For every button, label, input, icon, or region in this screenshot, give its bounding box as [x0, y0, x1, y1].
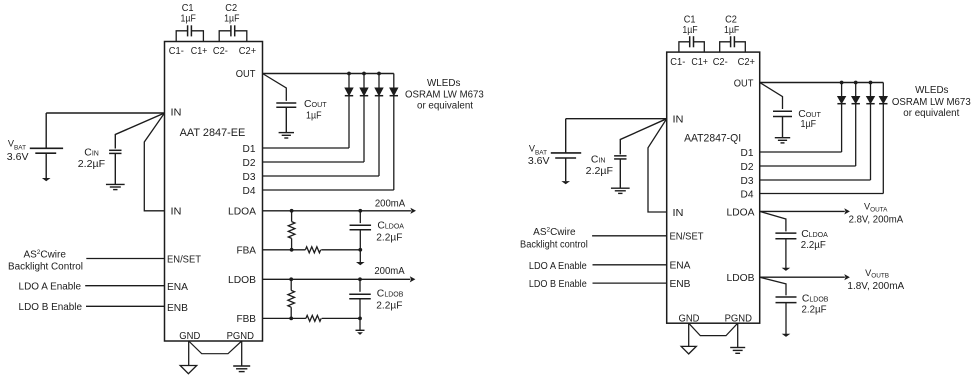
svg-text:CLDOB: CLDOB — [377, 288, 404, 299]
svg-text:3.6V: 3.6V — [7, 152, 29, 163]
wire GND-PGND bond (left) — [189, 341, 242, 354]
svg-text:C1+: C1+ — [691, 56, 708, 68]
svg-text:LDOB: LDOB — [727, 272, 755, 284]
wire PGND stub (right) — [737, 323, 739, 347]
svg-text:OUT: OUT — [236, 68, 256, 80]
svg-text:1µF: 1µF — [801, 118, 817, 130]
svg-text:C2: C2 — [725, 15, 737, 26]
wire CLDOA to ground — [359, 250, 361, 262]
svg-text:200mA: 200mA — [375, 198, 406, 209]
capacitor COUT — [276, 102, 296, 104]
ground signal below FBB — [356, 329, 365, 331]
ground earth below CIN — [106, 183, 125, 185]
svg-text:OSRAM LW M673: OSRAM LW M673 — [892, 97, 971, 108]
capacitor C1 (right) — [679, 42, 690, 52]
svg-text:IN: IN — [171, 206, 182, 218]
svg-text:IN: IN — [673, 114, 684, 126]
svg-text:COUT: COUT — [304, 99, 327, 110]
junction dot LDOA-R1 — [290, 209, 294, 213]
svg-text:or equivalent: or equivalent — [417, 100, 473, 111]
svg-text:VBAT: VBAT — [529, 144, 547, 157]
junction dot LED3 — [377, 72, 381, 76]
ground arrow below FBA — [356, 262, 365, 265]
svg-text:EN/SET: EN/SET — [167, 254, 202, 266]
capacitor C2 — [219, 31, 231, 42]
LED WLED4 (right) — [882, 83, 884, 97]
svg-text:3.6V: 3.6V — [528, 156, 550, 167]
resistor R1 (vertical) — [291, 211, 293, 222]
svg-text:D1: D1 — [243, 143, 256, 155]
wire D4 (left) — [263, 189, 394, 191]
svg-text:C2+: C2+ — [738, 56, 755, 68]
LED WLED2 (right) — [855, 83, 857, 97]
wire D2 (left) — [263, 161, 365, 163]
IC U1 AAT2847-EE — [165, 42, 263, 342]
svg-text:D4: D4 — [243, 185, 256, 197]
junction dot LED1 (right) — [840, 81, 844, 85]
wire OUT to COUT — [263, 74, 287, 101]
capacitor CIN (right) — [620, 119, 666, 155]
svg-text:C1: C1 — [182, 3, 194, 14]
wire OUT rail (right) — [760, 82, 884, 84]
wire GND-PGND bond (right) — [689, 323, 738, 335]
capacitor CLDOB — [359, 279, 361, 292]
junction dot LED2 — [362, 72, 366, 76]
resistor R3 (vertical) — [290, 279, 292, 290]
wire D1 (left) — [263, 147, 350, 149]
svg-text:ENA: ENA — [167, 281, 188, 293]
svg-text:IN: IN — [673, 207, 684, 219]
ground arrow below CLDOB — [782, 334, 791, 337]
svg-text:CIN: CIN — [591, 155, 606, 166]
svg-text:1µF: 1µF — [181, 14, 196, 25]
wire LDOA — [263, 210, 411, 212]
svg-text:OUT: OUT — [734, 77, 754, 89]
resistor R4 (horizontal) — [306, 315, 321, 321]
LED WLED4 (left) — [393, 74, 395, 88]
capacitor COUT (right) — [773, 110, 792, 112]
svg-text:AS2Cwire: AS2Cwire — [533, 227, 576, 239]
junction dot LDOB-CLDOB — [358, 277, 362, 281]
LED WLED3 (left) — [378, 74, 380, 88]
svg-text:1µF: 1µF — [224, 14, 239, 25]
svg-text:LDOA: LDOA — [228, 206, 256, 218]
capacitor C2 (right) — [720, 42, 731, 52]
svg-text:C2-: C2- — [213, 45, 228, 57]
wire EN/SET (left) — [86, 258, 164, 260]
battery VBAT (right) — [565, 119, 567, 153]
wire LDOA to VOUTA arrow — [760, 210, 845, 212]
svg-text:200mA: 200mA — [374, 266, 405, 277]
svg-text:AS2Cwire: AS2Cwire — [23, 249, 66, 261]
svg-text:WLEDs: WLEDs — [427, 78, 460, 89]
junction dot FBB-CLDOB — [358, 317, 362, 321]
capacitor CIN — [115, 113, 164, 149]
wire VBAT to IN — [46, 112, 164, 114]
svg-text:CIN: CIN — [84, 148, 99, 159]
svg-text:CLDOA: CLDOA — [801, 229, 828, 240]
LED WLED1 (right) — [841, 83, 843, 97]
svg-text:CLDOA: CLDOA — [377, 221, 404, 232]
junction dot LDOA-CLDOA — [358, 209, 362, 213]
IC U2 AAT2847-QI — [667, 52, 760, 323]
ground earth below COUT (right) — [775, 137, 790, 139]
svg-text:FBA: FBA — [237, 245, 257, 257]
junction dot FBB-R3 — [289, 317, 293, 321]
svg-text:C1-: C1- — [670, 56, 685, 68]
svg-text:1µF: 1µF — [724, 25, 739, 36]
ground earth below CIN (right) — [611, 187, 630, 189]
svg-text:AAT2847-QI: AAT2847-QI — [684, 133, 741, 145]
junction dot LDOB-R3 — [289, 277, 293, 281]
wire ENB (right) — [593, 282, 667, 284]
svg-text:1.8V, 200mA: 1.8V, 200mA — [847, 281, 904, 292]
svg-text:C1: C1 — [684, 15, 696, 26]
capacitor C1 — [176, 31, 187, 42]
svg-text:Backlight control: Backlight control — [520, 239, 588, 250]
wire ENB (left) — [86, 305, 165, 307]
wire FBA — [263, 249, 306, 251]
wire GND stub (left) — [188, 341, 190, 365]
svg-text:LDO A Enable: LDO A Enable — [529, 261, 587, 272]
svg-text:CLDOB: CLDOB — [802, 294, 829, 305]
LED WLED2 (left) — [363, 74, 365, 88]
svg-text:FBB: FBB — [237, 313, 257, 325]
svg-text:2.8V, 200mA: 2.8V, 200mA — [849, 215, 904, 226]
wire D2 (right) — [760, 165, 856, 167]
svg-text:OSRAM LW M673: OSRAM LW M673 — [405, 90, 484, 101]
svg-text:Backlight Control: Backlight Control — [8, 261, 83, 272]
svg-text:WLEDs: WLEDs — [915, 85, 948, 96]
svg-text:ENA: ENA — [670, 260, 691, 272]
svg-text:LDO B Enable: LDO B Enable — [529, 279, 587, 290]
svg-text:C2: C2 — [225, 3, 237, 14]
svg-text:D3: D3 — [741, 175, 754, 187]
svg-text:D2: D2 — [243, 157, 256, 169]
svg-text:C1-: C1- — [169, 45, 184, 57]
junction dot FBA-R1 — [290, 248, 294, 252]
wire D3 (left) — [263, 175, 380, 177]
wire IN to lower IN — [144, 113, 164, 211]
wire OUT to COUT (right) — [760, 83, 783, 110]
svg-text:VOUTB: VOUTB — [865, 268, 889, 280]
LED WLED1 (left) — [348, 74, 350, 88]
junction dot LED1 — [347, 72, 351, 76]
svg-text:2.2µF: 2.2µF — [376, 300, 402, 311]
svg-text:GND: GND — [179, 330, 200, 342]
resistor R2 (horizontal) — [305, 247, 320, 253]
wire D4 (right) — [760, 193, 884, 195]
capacitor CLDOA (right) — [760, 211, 786, 231]
wire IN to lower IN (right) — [648, 119, 667, 212]
svg-text:LDOB: LDOB — [228, 274, 256, 286]
svg-text:LDO A Enable: LDO A Enable — [19, 281, 82, 292]
svg-text:2.2µF: 2.2µF — [802, 305, 827, 316]
svg-text:C1+: C1+ — [191, 45, 208, 57]
svg-text:IN: IN — [171, 107, 182, 119]
svg-text:or equivalent: or equivalent — [903, 108, 959, 119]
wire GND stub (right) — [688, 323, 690, 346]
battery VBAT — [45, 113, 47, 148]
svg-text:VOUTA: VOUTA — [864, 202, 888, 214]
wire D3 (right) — [760, 179, 871, 181]
wire ENA (left) — [85, 285, 164, 287]
svg-text:GND: GND — [679, 312, 700, 324]
wire D1 (right) — [760, 151, 842, 153]
svg-text:D3: D3 — [243, 171, 256, 183]
wire VBAT to IN (right) — [566, 118, 667, 120]
svg-text:LDOA: LDOA — [727, 207, 755, 219]
svg-text:ENB: ENB — [670, 278, 691, 290]
svg-text:VBAT: VBAT — [8, 139, 26, 152]
ground chassis GND (right) — [681, 346, 696, 354]
capacitor CLDOA — [359, 211, 361, 223]
svg-text:D1: D1 — [741, 147, 754, 159]
wire LDOB to VOUTB arrow — [760, 276, 845, 278]
wire EN/SET (right) — [592, 235, 667, 237]
svg-text:PGND: PGND — [725, 312, 753, 324]
junction dot LED3 (right) — [869, 81, 873, 85]
wire PGND stub (left) — [241, 341, 243, 366]
svg-text:2.2µF: 2.2µF — [78, 159, 105, 170]
ground earth PGND (right) — [730, 347, 745, 349]
svg-text:LDO B Enable: LDO B Enable — [19, 302, 83, 313]
wire FBB — [263, 317, 306, 319]
capacitor CLDOB (right) — [760, 277, 786, 295]
ground earth below COUT — [279, 132, 294, 134]
svg-text:1µF: 1µF — [306, 110, 322, 122]
junction dot FBA-CLDOA — [358, 248, 362, 252]
svg-text:D4: D4 — [741, 188, 754, 200]
svg-text:ENB: ENB — [167, 302, 188, 314]
svg-text:C2-: C2- — [713, 56, 728, 68]
svg-text:D2: D2 — [741, 161, 754, 173]
svg-text:2.2µF: 2.2µF — [586, 166, 613, 177]
ground arrow below CLDOA — [782, 268, 791, 271]
LED WLED3 (right) — [870, 83, 872, 97]
ground chassis GND (left) — [180, 366, 197, 374]
wire LDOB — [263, 278, 411, 280]
junction dot LED2 (right) — [854, 81, 858, 85]
svg-text:C2+: C2+ — [239, 45, 256, 57]
svg-text:2.2µF: 2.2µF — [376, 233, 402, 244]
svg-text:EN/SET: EN/SET — [670, 231, 705, 243]
ground earth PGND (left) — [233, 365, 250, 367]
wire ENA (right) — [593, 264, 667, 266]
svg-text:PGND: PGND — [227, 330, 255, 342]
wire OUT rail — [263, 73, 394, 75]
svg-text:1µF: 1µF — [682, 25, 697, 36]
svg-text:AAT 2847-EE: AAT 2847-EE — [180, 127, 246, 139]
svg-text:2.2µF: 2.2µF — [801, 240, 826, 251]
